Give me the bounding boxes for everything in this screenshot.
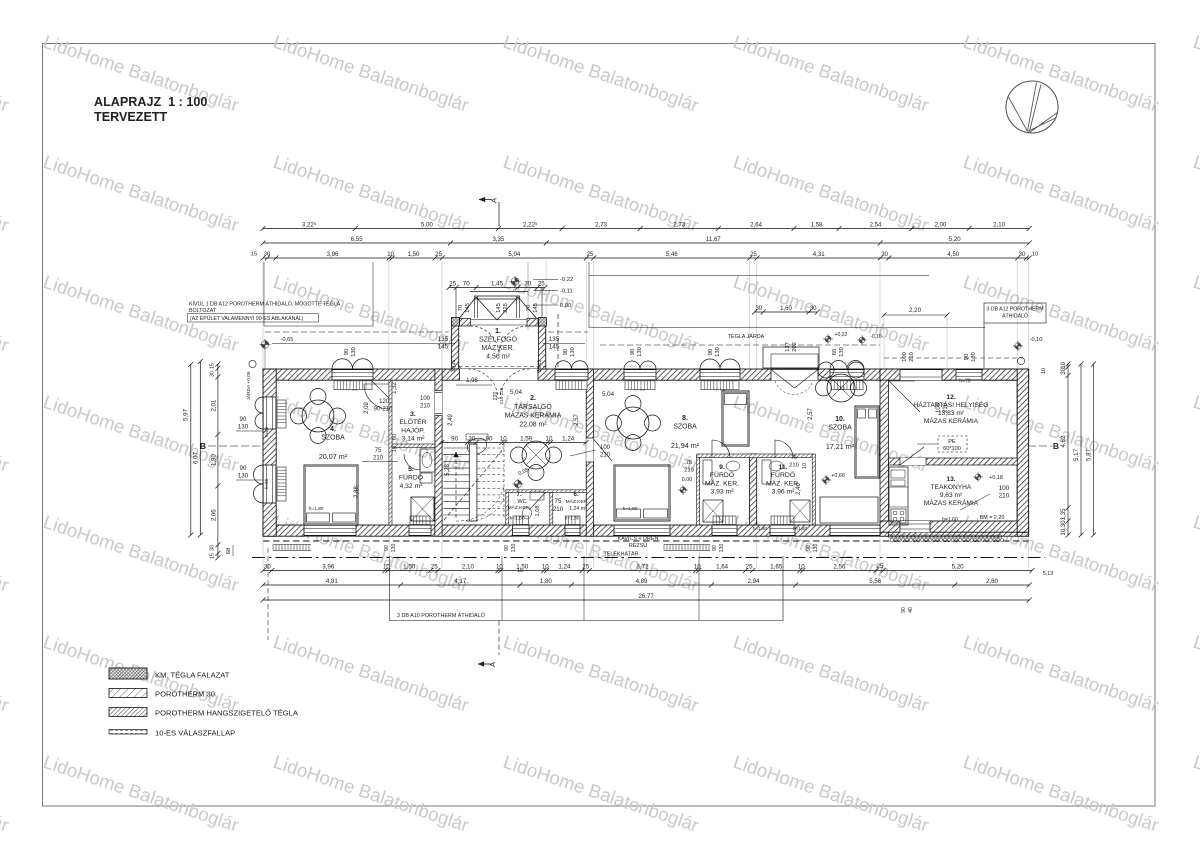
table room 8	[617, 407, 649, 439]
svg-text:202: 202	[792, 342, 798, 352]
left dashed axis below	[267, 548, 269, 640]
stairs winder fan	[466, 498, 504, 521]
svg-text:2,88: 2,88	[354, 486, 360, 498]
table room 10	[827, 374, 855, 402]
level marks near canopy	[511, 278, 519, 286]
svg-text:145: 145	[533, 303, 539, 313]
svg-text:10: 10	[496, 563, 503, 570]
door hall-bath5 swing	[404, 454, 420, 470]
svg-text:0,00: 0,00	[682, 477, 693, 483]
svg-text:30: 30	[210, 545, 216, 551]
dashed axis right of vestibule	[557, 314, 559, 368]
window left L1	[263, 397, 276, 429]
svg-text:-0,10: -0,10	[1030, 337, 1043, 343]
party wall V3	[586, 369, 593, 536]
dimension chain top row 1	[263, 228, 1029, 230]
svg-text:1,24: 1,24	[558, 563, 571, 570]
right dim 5,87	[1093, 364, 1095, 535]
svg-text:130: 130	[719, 544, 725, 553]
kitchen 13 counter	[889, 467, 908, 525]
svg-text:2,60: 2,60	[986, 578, 998, 585]
svg-text:1,24 m²: 1,24 m²	[569, 506, 587, 512]
svg-text:30: 30	[881, 251, 888, 258]
svg-text:90: 90	[712, 545, 718, 551]
svg-text:25: 25	[750, 251, 757, 258]
svg-text:9.: 9.	[719, 464, 725, 471]
svg-text:130: 130	[570, 347, 576, 357]
svg-text:3 DB A10 POROTHERM ÁTHIDALÓ: 3 DB A10 POROTHERM ÁTHIDALÓ	[397, 612, 485, 619]
svg-text:3,96: 3,96	[322, 563, 335, 570]
extension lines bottom	[262, 537, 264, 568]
brick tick strip left	[272, 545, 274, 551]
svg-text:1,24: 1,24	[562, 435, 575, 442]
stairs break line diagonal	[444, 448, 504, 520]
svg-text:2,09: 2,09	[364, 402, 370, 414]
wc7 fixture	[523, 507, 532, 519]
svg-text:60: 60	[392, 434, 398, 440]
svg-text:2,57: 2,57	[808, 408, 814, 420]
hall basin	[465, 436, 489, 457]
svg-text:10: 10	[387, 251, 394, 258]
svg-text:210-225: 210-225	[499, 387, 504, 404]
wall right exterior	[1017, 369, 1028, 536]
window left L2	[263, 465, 276, 503]
svg-text:25: 25	[582, 563, 589, 570]
room10 terrace door opening	[771, 369, 818, 380]
svg-text:BOLTOZAT: BOLTOZAT	[189, 308, 217, 314]
svg-text:A: A	[490, 198, 499, 203]
svg-text:-0,11: -0,11	[560, 289, 573, 295]
window below room6	[565, 525, 580, 536]
box 3 db a12 porotherm athidalo	[984, 303, 1046, 323]
canopy truss	[470, 291, 528, 293]
svg-text:13,83 m²: 13,83 m²	[938, 410, 965, 417]
svg-text:ELŐTÉR: ELŐTÉR	[399, 417, 426, 426]
svg-text:100: 100	[600, 445, 611, 451]
svg-text:5,28: 5,28	[445, 464, 451, 476]
svg-text:25: 25	[538, 280, 545, 287]
svg-text:30: 30	[1060, 367, 1067, 374]
svg-text:-0,22: -0,22	[560, 277, 573, 283]
svg-text:-0,65: -0,65	[281, 337, 294, 343]
svg-text:MÁZAS KERÁMIA: MÁZAS KERÁMIA	[924, 416, 979, 425]
door hall-room4 leaf	[371, 380, 389, 398]
bottom dim row 1	[263, 570, 1032, 572]
svg-text:90: 90	[964, 354, 970, 360]
partition hall/bath5 horizontal	[392, 444, 435, 448]
svg-text:22,08 m²: 22,08 m²	[519, 421, 547, 428]
legend 10-es valaszfallap	[109, 730, 147, 735]
terrace door porch room10	[763, 347, 819, 368]
svg-text:5,87: 5,87	[1086, 448, 1093, 461]
svg-text:+0,22: +0,22	[835, 332, 848, 338]
svg-text:210: 210	[789, 463, 799, 469]
svg-text:5,00: 5,00	[421, 221, 433, 228]
table room 4	[302, 400, 334, 432]
door room8-bath9 swing	[712, 440, 730, 458]
svg-text:TÉGLA JÁRDA: TÉGLA JÁRDA	[728, 333, 765, 340]
svg-text:130: 130	[238, 473, 249, 480]
svg-text:75: 75	[555, 498, 562, 505]
svg-text:75: 75	[375, 448, 382, 454]
left dim 6,07	[199, 362, 201, 536]
svg-text:90: 90	[486, 435, 493, 442]
svg-text:4,62: 4,62	[1060, 435, 1067, 447]
svg-text:2,01: 2,01	[211, 399, 217, 411]
svg-text:10: 10	[542, 563, 549, 570]
svg-text:1,50: 1,50	[403, 563, 416, 570]
svg-text:2,49: 2,49	[448, 414, 454, 426]
stairs treads	[444, 447, 470, 449]
svg-text:5,56: 5,56	[869, 578, 881, 585]
svg-text:4,32 m²: 4,32 m²	[399, 483, 423, 490]
svg-text:MÁZ. KER.: MÁZ. KER.	[705, 478, 739, 487]
svg-text:1,35: 1,35	[1060, 508, 1067, 520]
svg-text:-73: -73	[837, 386, 844, 392]
svg-text:9,63 m²: 9,63 m²	[940, 492, 963, 499]
svg-text:90: 90	[451, 435, 458, 442]
svg-text:130: 130	[238, 424, 249, 431]
svg-text:75: 75	[791, 455, 797, 461]
svg-text:10: 10	[694, 563, 701, 570]
room12 door diagonal	[889, 381, 920, 412]
svg-text:130: 130	[391, 544, 397, 553]
svg-text:1,58: 1,58	[811, 221, 823, 228]
leader box left	[264, 262, 373, 326]
svg-text:40: 40	[908, 607, 914, 613]
annex bottom window	[900, 521, 930, 532]
room10 door bottom	[830, 525, 880, 536]
svg-text:145: 145	[438, 344, 449, 351]
wall bottom exterior	[263, 525, 1029, 536]
svg-text:FÜRDŐ: FÜRDŐ	[771, 470, 795, 479]
svg-text:4,56 m²: 4,56 m²	[486, 354, 510, 361]
svg-text:KÍVÜL 1 DB A12 POROTHERM ÁTHID: KÍVÜL 1 DB A12 POROTHERM ÁTHIDALÓ, MÖGÖT…	[189, 301, 341, 308]
bed room 8	[614, 465, 670, 521]
svg-text:BM = 2,20: BM = 2,20	[980, 515, 1005, 521]
single bed room 8 right wall	[722, 391, 749, 446]
gravel dots annex bottom	[888, 535, 891, 538]
svg-text:MÁZAS KERÁMIA: MÁZAS KERÁMIA	[505, 411, 562, 420]
bath9 fixtures	[703, 500, 723, 522]
svg-text:75: 75	[686, 460, 692, 466]
svg-text:5,20: 5,20	[949, 236, 961, 243]
svg-text:15: 15	[517, 568, 523, 574]
radiators inside left wall windows	[277, 400, 286, 428]
svg-text:100: 100	[902, 352, 908, 362]
window W5 room10	[830, 369, 864, 380]
svg-text:FÜRDŐ: FÜRDŐ	[399, 472, 423, 481]
svg-text:130: 130	[715, 347, 721, 357]
partition right of bath11	[812, 454, 815, 525]
svg-text:210: 210	[420, 404, 431, 410]
svg-text:30: 30	[810, 306, 817, 312]
svg-text:3,14 m²: 3,14 m²	[401, 436, 425, 443]
svg-text:6.: 6.	[573, 492, 578, 498]
svg-text:6,07: 6,07	[192, 451, 199, 464]
svg-text:20,07 m²: 20,07 m²	[319, 452, 348, 461]
svg-text:30: 30	[755, 306, 762, 312]
leader box right	[589, 262, 985, 328]
svg-text:2,10: 2,10	[993, 221, 1005, 228]
party wall V4 lower	[750, 454, 757, 525]
svg-text:1,80: 1,80	[211, 454, 217, 466]
svg-text:100: 100	[999, 485, 1010, 492]
svg-text:RÉZSŰ: RÉZSŰ	[629, 542, 647, 549]
left dim chain	[217, 364, 219, 558]
svg-text:5,20: 5,20	[952, 563, 965, 570]
svg-text:225: 225	[503, 303, 509, 313]
svg-text:17,21 m²: 17,21 m²	[826, 442, 855, 451]
svg-text:h=88: h=88	[264, 426, 269, 437]
telekhatar dash dot line	[252, 557, 1045, 559]
svg-text:SZOBA: SZOBA	[321, 434, 345, 441]
table tarsalgo	[522, 441, 550, 469]
svg-text:4,17: 4,17	[454, 578, 466, 585]
svg-text:2,57: 2,57	[574, 414, 580, 426]
svg-text:2,10: 2,10	[462, 563, 475, 570]
svg-text:HAJÓP.: HAJÓP.	[401, 425, 425, 434]
svg-text:210: 210	[684, 468, 694, 474]
svg-text:0,00: 0,00	[560, 303, 571, 309]
section arrow A bottom	[498, 621, 500, 656]
bath5 window	[409, 525, 431, 536]
stairs up arrow dashed	[455, 452, 457, 518]
bottom dim row 3	[263, 599, 1029, 601]
svg-text:5,13: 5,13	[1043, 571, 1054, 577]
svg-text:2,22⁵: 2,22⁵	[523, 221, 538, 228]
legend porotherm hangszigetelo	[109, 708, 147, 717]
svg-text:-0,10: -0,10	[870, 334, 882, 340]
extension lines from top chains to walls	[262, 261, 264, 368]
svg-text:90: 90	[240, 465, 247, 472]
svg-text:h=1,80: h=1,80	[309, 506, 324, 512]
kitchen stove	[891, 509, 906, 523]
svg-text:15: 15	[251, 252, 257, 258]
svg-text:2,73: 2,73	[673, 221, 685, 228]
svg-text:10: 10	[546, 435, 553, 442]
svg-text:3,96: 3,96	[327, 251, 339, 258]
svg-text:SZÉLFOGÓ: SZÉLFOGÓ	[479, 335, 518, 344]
stair dim row	[442, 442, 586, 444]
svg-text:4,31: 4,31	[813, 251, 825, 258]
svg-text:2,73: 2,73	[595, 221, 607, 228]
svg-text:100: 100	[420, 396, 431, 402]
svg-text:130: 130	[971, 352, 977, 362]
brick tick strip mid	[663, 545, 665, 551]
annex inner door 12-13	[900, 458, 926, 465]
svg-text:h=1,60: h=1,60	[942, 517, 958, 523]
vestibule inner double door swing	[468, 369, 498, 399]
svg-text:2,94: 2,94	[748, 578, 760, 585]
svg-text:100: 100	[936, 402, 942, 413]
svg-text:90: 90	[630, 349, 636, 355]
svg-text:15: 15	[210, 553, 216, 559]
svg-text:10.: 10.	[835, 416, 845, 423]
svg-text:2,00: 2,00	[934, 221, 946, 228]
svg-text:210: 210	[909, 352, 915, 362]
svg-text:3.: 3.	[410, 411, 416, 418]
svg-text:68: 68	[226, 548, 232, 554]
svg-text:5,04: 5,04	[508, 251, 520, 258]
svg-text:10: 10	[1060, 361, 1067, 368]
svg-text:70: 70	[463, 280, 470, 287]
svg-text:h=88: h=88	[264, 478, 269, 489]
svg-text:11,67: 11,67	[706, 236, 721, 243]
svg-text:12.: 12.	[946, 394, 955, 401]
svg-text:5,46: 5,46	[666, 251, 678, 258]
svg-text:130: 130	[351, 347, 357, 357]
bath9 window	[712, 525, 737, 536]
kitchen sink boxes	[891, 470, 905, 478]
svg-text:1,50: 1,50	[408, 251, 420, 258]
svg-text:h=1,80: h=1,80	[753, 526, 768, 531]
svg-text:TÁRSALGÓ: TÁRSALGÓ	[514, 402, 552, 411]
svg-text:h=1,80: h=1,80	[565, 516, 580, 522]
partition bath9 bath11 top	[697, 454, 813, 458]
svg-text:POROTHERM 30: POROTHERM 30	[155, 690, 215, 699]
svg-text:90: 90	[901, 607, 907, 613]
svg-text:130: 130	[511, 544, 517, 553]
svg-text:3,96 m²: 3,96 m²	[771, 489, 795, 496]
svg-text:3 DB A12 POROTHERM: 3 DB A12 POROTHERM	[986, 307, 1043, 313]
svg-text:MÁZ.KER.: MÁZ.KER.	[481, 343, 514, 352]
svg-text:A: A	[488, 662, 497, 667]
svg-text:10: 10	[1032, 252, 1038, 258]
svg-text:90: 90	[504, 545, 510, 551]
svg-text:HÁZTARTÁSI HELYISÉG: HÁZTARTÁSI HELYISÉG	[914, 400, 989, 409]
30 160 30 dims above room10	[755, 311, 818, 313]
svg-text:210: 210	[999, 493, 1010, 500]
svg-text:5,97: 5,97	[183, 408, 190, 421]
svg-text:WC: WC	[517, 499, 526, 505]
left dim 5,97	[190, 364, 192, 535]
svg-text:26,77: 26,77	[638, 593, 654, 600]
vestibule door swing dashed	[470, 326, 499, 355]
svg-text:90: 90	[344, 349, 350, 355]
right annex block walls	[880, 369, 1029, 380]
canopy dim chain 25 70 145 70 25	[449, 287, 545, 289]
svg-text:4,81: 4,81	[326, 578, 338, 585]
svg-text:90-210: 90-210	[374, 407, 393, 413]
stairs center wall	[469, 444, 477, 521]
svg-text:210: 210	[373, 456, 384, 462]
dimension chain top row 3	[263, 257, 1029, 259]
left 68 dim	[232, 545, 234, 556]
svg-text:3,35: 3,35	[492, 236, 504, 243]
svg-text:(AZ ÉPÜLET VALAMENNYI 90-ES AB: (AZ ÉPÜLET VALAMENNYI 90-ES ABLAKÁNÁL)	[190, 315, 304, 322]
svg-text:1,59: 1,59	[520, 435, 533, 442]
svg-text:KAVICS + DRÉN: KAVICS + DRÉN	[618, 535, 659, 542]
svg-text:130: 130	[839, 347, 845, 357]
right dim chain	[1067, 364, 1069, 535]
svg-text:TERVEZETT: TERVEZETT	[94, 110, 168, 124]
level mark tarsalgo	[514, 480, 521, 487]
bath5 fixtures	[420, 449, 435, 472]
window W1 room4	[332, 369, 373, 380]
svg-text:B: B	[1053, 441, 1059, 451]
svg-text:5,17: 5,17	[1073, 448, 1080, 461]
bath5 shower	[411, 497, 434, 521]
svg-text:90: 90	[240, 416, 247, 423]
svg-text:25: 25	[431, 563, 438, 570]
logo inner V strokes	[1009, 83, 1058, 133]
svg-text:60*100: 60*100	[943, 446, 961, 452]
svg-text:POROTHERM HANGSZIGETELŐ TÉGLA: POROTHERM HANGSZIGETELŐ TÉGLA	[155, 709, 299, 718]
legend km tegla falazat	[109, 668, 147, 679]
door room4 swing	[364, 383, 389, 385]
svg-text:PE: PE	[948, 439, 956, 445]
svg-text:30: 30	[264, 252, 270, 258]
svg-text:70: 70	[524, 280, 531, 287]
wall V5	[880, 369, 889, 536]
svg-text:h=1,80: h=1,80	[623, 506, 638, 512]
vestibule opening into house	[460, 369, 539, 380]
window W6 annex	[956, 369, 982, 380]
bath11 fixtures	[790, 500, 810, 522]
annex entrance door opening	[900, 369, 942, 380]
pe box room 12 dashed	[938, 436, 967, 452]
right dim 5,17	[1080, 364, 1082, 535]
dimension chain top row 2	[263, 242, 1029, 244]
svg-text:145: 145	[465, 303, 471, 313]
radiators under top windows	[334, 381, 372, 390]
svg-text:210: 210	[600, 453, 611, 459]
svg-text:TELEKHATÁR: TELEKHATÁR	[604, 551, 639, 558]
svg-text:SZOBA: SZOBA	[828, 424, 852, 431]
svg-text:5,04: 5,04	[602, 391, 615, 398]
svg-text:25: 25	[435, 251, 442, 258]
svg-text:FÜRDŐ: FÜRDŐ	[710, 470, 734, 479]
svg-text:+0,66: +0,66	[831, 473, 845, 479]
svg-text:10: 10	[798, 563, 805, 570]
svg-text:70: 70	[458, 305, 464, 311]
axis circle right	[1017, 357, 1024, 364]
svg-text:25: 25	[587, 251, 594, 258]
svg-text:MÁZAS KERÁMIA: MÁZAS KERÁMIA	[924, 498, 979, 507]
axis circle left	[249, 360, 256, 367]
svg-text:10: 10	[1041, 368, 1047, 374]
bed room 10	[855, 406, 879, 478]
svg-text:3,72: 3,72	[636, 563, 649, 570]
svg-text:SZOBA: SZOBA	[673, 423, 697, 430]
wall left exterior	[263, 369, 276, 536]
bottom dim row 2	[263, 584, 1029, 586]
svg-text:1,32: 1,32	[392, 382, 398, 394]
desk room 10	[820, 497, 878, 523]
wc7 door diagonal	[529, 492, 546, 510]
dashed walkway lines above wall	[600, 344, 880, 346]
svg-text:1,64: 1,64	[716, 563, 729, 570]
svg-text:h=1,80: h=1,80	[510, 516, 525, 522]
svg-text:70: 70	[526, 305, 532, 311]
annex partition 12/13	[889, 458, 1018, 465]
annotation boxed az epulet	[188, 314, 319, 323]
svg-text:TEAKONYHA: TEAKONYHA	[931, 484, 972, 491]
svg-text:1.: 1.	[495, 328, 501, 335]
level mark room10	[825, 336, 831, 342]
svg-text:30: 30	[264, 563, 271, 570]
svg-text:JÁRDA +0,05: JÁRDA +0,05	[245, 371, 252, 400]
svg-text:4,50: 4,50	[947, 251, 959, 258]
terrace door room4	[304, 525, 356, 536]
svg-text:145: 145	[496, 303, 502, 313]
svg-text:30 15: 30 15	[537, 360, 543, 373]
svg-text:10: 10	[392, 446, 398, 452]
svg-text:60: 60	[832, 349, 838, 355]
wall top exterior	[263, 369, 1029, 380]
svg-text:+0,18: +0,18	[989, 475, 1003, 481]
